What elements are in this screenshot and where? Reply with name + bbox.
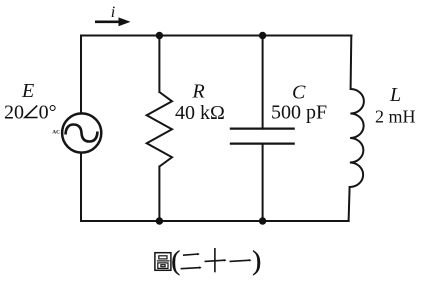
voltage source E (AC)	[62, 113, 101, 152]
wire left upper (source to top bus)	[80, 36, 82, 114]
label L	[389, 84, 401, 106]
svg-text:R: R	[192, 81, 205, 103]
current arrow i	[95, 17, 131, 26]
label AC	[52, 130, 60, 136]
glyph )	[252, 246, 261, 276]
label E	[21, 80, 34, 102]
wire L branch bottom	[349, 187, 350, 221]
svg-text:20: 20	[4, 102, 24, 124]
svg-text:C: C	[292, 81, 306, 103]
svg-text:AC: AC	[52, 130, 60, 136]
svg-text:L: L	[389, 84, 401, 106]
capacitor C	[230, 129, 295, 144]
wire L branch top	[350, 36, 353, 90]
label 20∠0°	[4, 102, 57, 124]
glyph 十	[205, 248, 227, 272]
wire R branch bottom	[158, 167, 160, 222]
glyph 二	[181, 253, 202, 269]
wire bottom bus	[81, 220, 349, 222]
svg-text:2 mH: 2 mH	[375, 106, 416, 126]
label C	[292, 81, 306, 103]
svg-text:500 pF: 500 pF	[271, 102, 327, 124]
junction node bottom-right	[259, 217, 266, 224]
svg-text:0°: 0°	[39, 102, 57, 124]
wire R branch top	[158, 36, 160, 93]
label R	[192, 81, 205, 103]
wire C branch bottom	[262, 144, 264, 221]
glyph (	[171, 246, 180, 276]
label 2 mH	[375, 106, 416, 126]
svg-text:40 kΩ: 40 kΩ	[175, 102, 225, 124]
label 40 kΩ	[175, 102, 225, 124]
wire C branch top	[262, 36, 264, 129]
label i	[111, 4, 115, 21]
glyph 圖	[155, 253, 171, 271]
svg-text:): )	[252, 246, 261, 276]
svg-text:(: (	[171, 246, 180, 276]
svg-text:i: i	[111, 4, 115, 21]
junction node top-left	[156, 32, 163, 39]
junction node top-right	[259, 32, 266, 39]
resistor R	[147, 92, 172, 167]
inductor L	[350, 89, 364, 187]
junction node bottom-left	[156, 217, 163, 224]
caption 圖(二十一)	[155, 246, 261, 276]
svg-text:E: E	[21, 80, 34, 102]
glyph 一	[230, 259, 252, 262]
label 500 pF	[271, 102, 327, 124]
wire left lower (source to bottom bus)	[80, 153, 82, 221]
wire top bus	[81, 35, 352, 37]
